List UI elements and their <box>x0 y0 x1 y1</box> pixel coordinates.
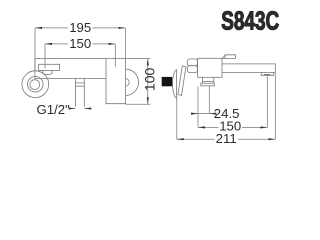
svg-text:150: 150 <box>69 36 91 51</box>
svg-text:211: 211 <box>216 131 237 146</box>
svg-text:100: 100 <box>141 68 157 92</box>
svg-text:G1/2": G1/2" <box>37 102 71 117</box>
svg-text:195: 195 <box>69 20 91 35</box>
svg-text:S843C: S843C <box>221 6 279 36</box>
